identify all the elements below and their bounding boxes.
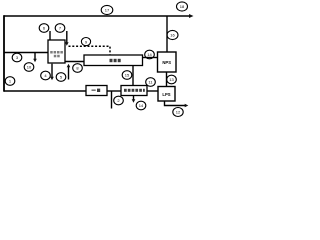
svg-text:11: 11 — [148, 80, 153, 85]
wire: left feed into control box — [4, 52, 48, 54]
wire: bottom bus left segment — [4, 90, 86, 92]
svg-text:13: 13 — [169, 77, 174, 82]
node H: circle 10 — [24, 63, 34, 72]
wire: amplifier to NPS — [143, 57, 159, 59]
node Q: circle 12 — [173, 108, 183, 117]
node E: circle 7 — [55, 24, 65, 33]
node J: circle 4 — [41, 71, 51, 80]
control box U1 — [48, 40, 65, 63]
wire: from circle 6 into control box top — [49, 31, 51, 40]
wire: NPS to LPS — [166, 72, 168, 87]
svg-text:4: 4 — [44, 73, 47, 78]
wire: drop from control box bottom left — [50, 64, 54, 81]
svg-text:18: 18 — [180, 4, 185, 9]
node G: circle 3 under left feed — [12, 53, 22, 62]
wire: T-drop arrow from left feed — [33, 53, 37, 63]
wire: top bus with arrow — [4, 14, 194, 18]
svg-text:6: 6 — [43, 26, 46, 31]
node C: circle 16 on right drop — [167, 30, 178, 39]
svg-text:3: 3 — [16, 55, 19, 60]
attenuator box A2 on bottom bus — [121, 86, 147, 96]
svg-text:NPS: NPS — [162, 60, 171, 65]
svg-text:9: 9 — [85, 39, 88, 44]
wire: drop from amplifier to attenuator box — [132, 66, 134, 86]
wire: left border — [3, 15, 5, 92]
node F: circle 14 on amplifier-NPS wire — [145, 50, 155, 59]
svg-text:1: 1 — [9, 79, 12, 84]
node L: circle 8 — [73, 64, 83, 73]
svg-text:7: 7 — [59, 26, 62, 31]
node M: circle 15 — [122, 71, 132, 80]
wire: T-drop from bottom bus — [111, 91, 113, 109]
svg-text:17: 17 — [105, 8, 110, 13]
node K: circle 5 — [56, 73, 66, 82]
wire: bottom bus right segment — [147, 90, 158, 92]
node D: circle 6 — [39, 24, 49, 33]
svg-text:8: 8 — [76, 66, 79, 71]
node O: circle 13 — [167, 75, 177, 84]
node S: circle 9 on dashed wire — [81, 38, 90, 46]
svg-text:16: 16 — [170, 33, 175, 38]
svg-text:12: 12 — [176, 110, 181, 115]
wire: dashed link to amplifier box — [69, 46, 111, 55]
relay box K1 on bottom bus — [86, 86, 107, 96]
svg-text:15: 15 — [125, 73, 130, 78]
wire: up-arrow line into control box bottom — [67, 64, 71, 80]
amplifier box A1 — [84, 55, 143, 66]
node I: circle 1 near left border — [5, 77, 15, 86]
NPS box — [158, 52, 177, 72]
wire: LPS output with arrow — [165, 101, 189, 107]
node B: circle 18 at top-right arrow — [177, 2, 188, 11]
LPS box — [158, 87, 175, 102]
wire: arrowed drop below attenuator — [132, 96, 136, 103]
wire: right drop from top bus to NPS — [166, 16, 168, 52]
svg-text:14: 14 — [139, 103, 144, 108]
svg-text:2: 2 — [117, 98, 120, 103]
svg-text:10: 10 — [27, 65, 32, 70]
svg-text:14: 14 — [147, 52, 152, 57]
node P: circle 14b — [136, 101, 146, 110]
node R: circle 2 — [114, 96, 124, 105]
node A: circle 17 on top bus — [101, 5, 113, 14]
node N: circle 11 — [146, 78, 156, 87]
wire: arrowed drop right of control box — [65, 31, 69, 46]
svg-text:LPS: LPS — [162, 92, 170, 97]
wire: bottom bus middle segment — [107, 90, 121, 92]
svg-text:5: 5 — [60, 75, 63, 80]
wire: control box to amplifier box — [65, 61, 84, 63]
